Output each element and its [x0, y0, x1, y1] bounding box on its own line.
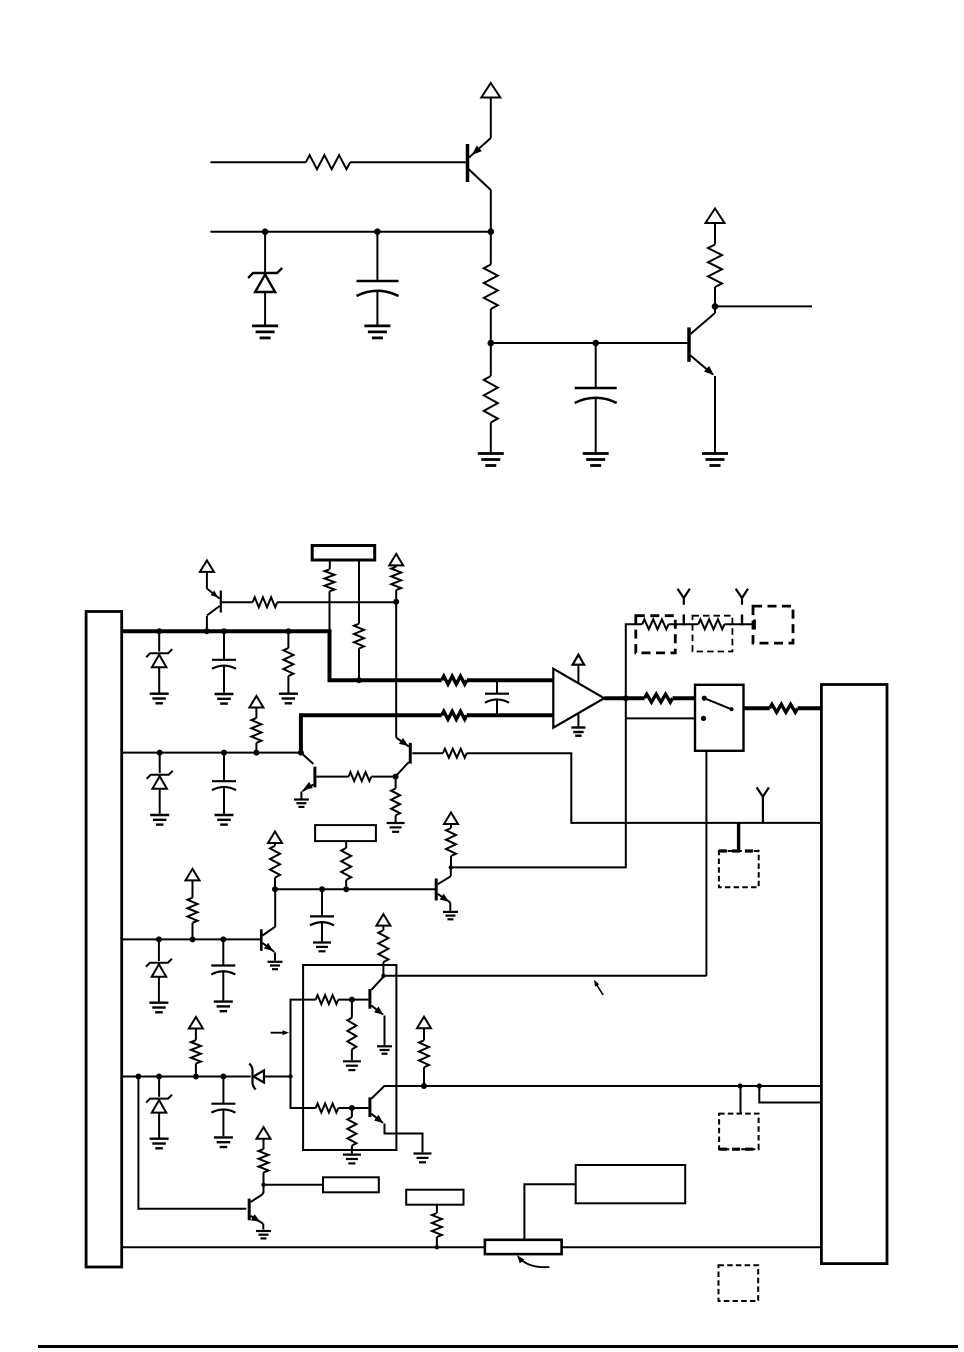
node row2 cap — [221, 750, 227, 756]
wire thick to op-amp - — [467, 713, 554, 717]
resistor R10 — [251, 708, 261, 753]
ground Q7 — [443, 912, 458, 919]
switch SW1 box — [695, 685, 744, 751]
capacitor C5 — [211, 939, 235, 1000]
box B2 — [315, 825, 376, 841]
power V+ T5 — [249, 696, 263, 708]
wire Q9 emitter — [385, 1124, 423, 1153]
wire Q8 emitter — [384, 1016, 386, 1046]
wire Q2 emitter — [714, 376, 716, 454]
ground C5 — [214, 1002, 233, 1012]
wire switch bottom pin — [705, 750, 707, 976]
switch lever — [704, 698, 733, 711]
ground R3 — [478, 454, 504, 466]
zener diode Z2 — [147, 753, 173, 814]
ground C2 — [583, 454, 609, 466]
ground C7 — [214, 1137, 233, 1147]
resistor R18 — [191, 1029, 201, 1077]
resistor R1 — [306, 155, 350, 169]
wire output to switch — [673, 696, 695, 700]
resistor R13 — [391, 777, 400, 822]
capacitor C1 — [357, 232, 399, 326]
node bus Q3 collector — [204, 628, 210, 634]
wire output feedback down — [452, 698, 626, 867]
node bus zener — [156, 628, 162, 634]
wire thick bus to op-amp + — [467, 678, 554, 682]
wire row4 — [122, 1076, 251, 1078]
node output — [623, 695, 629, 701]
ground Z1 — [150, 694, 169, 704]
ground Q10 — [256, 1231, 271, 1238]
transistor Q8 (NPN) — [370, 976, 384, 1015]
wire Q4 base — [316, 776, 348, 778]
resistor R11 — [349, 772, 372, 781]
node box lead — [356, 677, 362, 683]
ground R23 — [343, 1155, 361, 1164]
resistor R14 — [188, 880, 198, 939]
resistor R9 — [391, 565, 401, 737]
power V+ T4 — [389, 554, 403, 566]
dashed box NB2 — [719, 1114, 759, 1150]
ground C4 — [215, 815, 234, 825]
wire Q5 base — [412, 752, 443, 754]
annotation arrow A1 — [271, 1030, 289, 1035]
node R24 join — [421, 1083, 427, 1089]
transistor Q1 (PNP) — [468, 138, 491, 190]
node row3 zener — [156, 936, 162, 942]
ground R5 — [279, 694, 298, 704]
node Q4 collector — [298, 750, 304, 756]
resistor R3 — [484, 343, 498, 454]
wire stub to CN2 — [759, 1086, 821, 1103]
wire row3b — [275, 888, 436, 890]
box B1 — [312, 546, 375, 561]
dashed box NB3 — [719, 1265, 759, 1301]
ground C1 — [364, 326, 390, 338]
box B5 — [576, 1165, 686, 1203]
power V+ T7 — [268, 832, 282, 844]
resistor R22 — [316, 1104, 339, 1113]
node bus cap — [221, 628, 227, 634]
resistor R5 — [283, 631, 293, 692]
transistor Q10 (NPN) — [249, 1195, 263, 1230]
transistor Q6 (NPN) — [261, 927, 275, 961]
wire Q10 to B3 — [264, 1184, 324, 1186]
zener diode Z1 — [146, 631, 172, 692]
wire bottom rail — [122, 1246, 822, 1248]
node Q7 collector — [449, 865, 453, 869]
capacitor C4 — [212, 753, 236, 814]
node stub NB2 — [738, 1083, 743, 1088]
ground R13 — [387, 823, 405, 832]
ground Z3 — [149, 1003, 168, 1013]
box B3 — [323, 1177, 379, 1192]
wire R25-R26 — [669, 623, 699, 625]
ground Q4 — [294, 800, 309, 807]
ground Q6 — [268, 962, 283, 969]
node B — [488, 340, 495, 347]
wire Q10 collector — [262, 1185, 264, 1195]
wire Q7 collector — [450, 867, 452, 876]
power V+ T13 — [257, 1127, 271, 1139]
capacitor C7 — [211, 1077, 235, 1137]
ground D1 — [252, 326, 278, 338]
switch throw contact — [701, 716, 706, 721]
wire R26 to DB3 — [724, 623, 753, 625]
resistor R4 — [708, 224, 722, 306]
switch pole contact — [702, 696, 707, 701]
transistor Q4 (NPN) — [301, 753, 315, 799]
power V+ T8 — [444, 813, 458, 825]
node V2 join — [288, 1074, 292, 1078]
resistor R20 — [347, 1000, 356, 1061]
box MV outline — [303, 965, 396, 1150]
ground U1 — [571, 713, 585, 736]
wire Q9 collector out — [383, 1085, 821, 1087]
node row4 res — [193, 1074, 199, 1080]
connector CN2 (right) — [821, 685, 887, 1264]
resistor R6 — [253, 597, 278, 607]
ground C6 — [313, 943, 331, 952]
node row4 zener — [156, 1074, 162, 1080]
ground Q2 — [702, 454, 728, 466]
zener diode Z5 (series) — [249, 1064, 290, 1090]
power V+ T11 — [417, 1017, 431, 1028]
node Q4/Q5 — [393, 774, 399, 780]
wire MV base feed vertical — [291, 1000, 316, 1108]
dashed box DB2 — [693, 616, 733, 652]
resistor R26 — [698, 619, 724, 629]
node row2 zener — [157, 750, 163, 756]
resistor R2 — [484, 232, 498, 343]
dashed box NB1 — [719, 851, 759, 887]
wire Q5 collector — [395, 775, 397, 778]
wire Q8 collector to switch — [383, 975, 706, 977]
node W2-b — [374, 228, 381, 235]
resistor R7 (B1 left lead) — [325, 560, 335, 631]
wire row2 — [122, 752, 301, 754]
capacitor C3 — [212, 631, 236, 693]
resistor R15 (B2 lead) — [341, 841, 351, 889]
zener diode D1 — [248, 232, 282, 326]
ground Z4 — [150, 1139, 169, 1149]
ground R20 — [343, 1061, 361, 1070]
annotation arrow A2 — [594, 980, 603, 995]
wire Q2 collector — [714, 306, 716, 313]
resistor R27 (output, thick) — [645, 694, 673, 702]
transistor Q3 (PNP) — [207, 589, 221, 616]
node Q10 collector — [261, 1183, 265, 1187]
resistor R23 — [347, 1108, 356, 1153]
power V+ T9 — [189, 1017, 203, 1029]
resistor R19 — [316, 995, 339, 1004]
antenna Y3 — [757, 787, 769, 823]
wire Q3 base — [222, 601, 253, 603]
ground Q8 — [377, 1046, 392, 1053]
node B2 — [592, 340, 599, 347]
wire B5 to rail — [524, 1184, 575, 1239]
transistor Q9 (NPN) — [370, 1087, 384, 1124]
resistor R30 (B4 lead) — [432, 1205, 442, 1248]
wire Q3 collector — [206, 616, 208, 631]
wire R22 to Q9 — [338, 1107, 368, 1109]
node Q8 base — [349, 997, 355, 1003]
test point tick TP1 — [683, 615, 685, 626]
resistor R25 — [642, 619, 668, 629]
wire Q6 collector — [274, 889, 276, 927]
node row3 res — [190, 936, 196, 942]
ground Z2 — [150, 815, 169, 825]
wire R6 to node — [277, 601, 396, 603]
transistor Q2 (NPN) — [689, 313, 715, 375]
resistor R17 — [446, 824, 456, 867]
annotation curved arrow A3 — [517, 1255, 550, 1267]
node Q2 collector — [712, 303, 719, 310]
wire row3 — [122, 938, 261, 940]
resistor R16 — [270, 843, 280, 889]
pin tick DB3 — [753, 620, 756, 630]
dashed box DB1 — [636, 616, 676, 653]
power V+ U1 — [573, 655, 585, 683]
wire stub to NB2 — [740, 1086, 742, 1114]
node row3 cap — [220, 936, 226, 942]
wire switch output thick — [744, 706, 770, 710]
wire W2 — [210, 231, 490, 233]
wire thick bus row1 — [122, 631, 442, 680]
capacitor C2 — [575, 343, 617, 454]
node row2 res — [253, 750, 259, 756]
node W2-c — [488, 228, 495, 235]
page footer rule — [38, 1345, 958, 1348]
capacitor C8 (input filter) — [485, 680, 509, 715]
zener diode Z4 — [146, 1077, 172, 1138]
wire Q1 collector — [490, 190, 492, 232]
resistor RA (+ input, thick) — [442, 676, 467, 684]
op-amp U1 — [553, 669, 604, 728]
node W2-a — [262, 228, 269, 235]
dashed box DB3 — [753, 606, 793, 643]
resistor R24 — [419, 1028, 429, 1086]
connector CN1 (left) — [86, 612, 122, 1268]
node rail R30 — [435, 1245, 439, 1249]
wire Q9 collector — [383, 1086, 385, 1087]
wire R12 feedback — [467, 753, 822, 823]
wire node B to Q2 base — [491, 342, 689, 344]
node stub CN2b — [757, 1083, 762, 1088]
resistor R21 — [378, 926, 388, 976]
transistor Q5 (PNP) — [396, 738, 411, 777]
node bus resistor — [285, 628, 291, 634]
node Q6 collector — [272, 886, 278, 892]
ground Q9 emitter — [414, 1154, 432, 1163]
wire stub to NB1 — [737, 823, 740, 851]
capacitor C6 — [310, 889, 334, 941]
transistor Q7 (NPN) — [436, 876, 451, 911]
wire Q2 output — [715, 305, 812, 307]
power V+ top T2 — [706, 209, 725, 224]
node Q3 base bias — [393, 599, 399, 605]
wire op-amp output thick — [604, 696, 644, 700]
wire R11 to node — [371, 776, 395, 778]
node Q9 base — [349, 1105, 355, 1111]
antenna Y1 — [678, 589, 690, 605]
test point tick TP2 — [741, 615, 743, 626]
wire feedback to switch — [626, 717, 695, 719]
node Q8 collector — [381, 974, 385, 978]
ground C3 — [215, 694, 234, 704]
node row4 branch — [135, 1074, 141, 1080]
power V+ T6 — [186, 869, 200, 881]
wire R28 to CN2 — [798, 706, 822, 710]
node row4 cap — [220, 1074, 226, 1080]
antenna Y2 — [736, 589, 748, 605]
power V+ T3 — [200, 560, 214, 588]
node row3b box — [343, 886, 349, 892]
wire Q8 collector — [383, 975, 385, 978]
box B4 — [406, 1190, 463, 1205]
wire output up — [626, 624, 642, 698]
wire base Q1 — [210, 161, 467, 163]
zener diode Z3 — [146, 939, 172, 1001]
box FB (flat, on rail) — [485, 1240, 562, 1254]
power V+ top T1 — [481, 83, 500, 138]
node row3b cap — [319, 886, 325, 892]
resistor R29 — [259, 1139, 269, 1185]
resistor R8 (B1 right lead) — [354, 560, 364, 680]
resistor R12 — [443, 749, 467, 758]
wire V1 to Q10 base — [138, 1077, 246, 1209]
power V+ T10 — [376, 914, 390, 926]
resistor R28 (thick) — [770, 704, 798, 712]
wire R19 to Q8 — [338, 999, 368, 1001]
wire thick row2 — [301, 715, 442, 752]
resistor RB (- input, thick) — [442, 711, 467, 719]
